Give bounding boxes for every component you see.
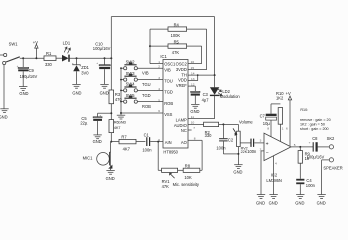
- connector SK2: [323, 136, 342, 170]
- svg-text:GND: GND: [0, 115, 8, 120]
- svg-text:10: 10: [191, 121, 195, 125]
- svg-text:+V: +V: [33, 40, 38, 45]
- wire C8 to SK2: [317, 146, 329, 148]
- resistor R3: [109, 90, 122, 104]
- ground (MIC1): [106, 170, 115, 180]
- resistor R5: [150, 39, 202, 55]
- wire R5 to OSC2: [188, 46, 202, 64]
- svg-text:4µ7: 4µ7: [202, 97, 210, 102]
- wire LAMP: [188, 118, 215, 120]
- pushbutton SW5: [120, 93, 137, 103]
- label R10 gain note: [300, 108, 331, 131]
- wire VSS to bus: [120, 112, 163, 114]
- svg-text:4: 4: [158, 87, 160, 91]
- wire -in to ground: [261, 151, 264, 195]
- node junction RV1 tap: [157, 141, 159, 143]
- svg-text:VREF: VREF: [176, 83, 187, 88]
- node junction C9: [22, 57, 24, 59]
- wire +V top run: [111, 16, 214, 18]
- wire SW3 to TGU, node TGU: [137, 80, 163, 87]
- label mic sensitivity: [173, 182, 200, 187]
- svg-text:IC1: IC1: [160, 54, 167, 59]
- svg-text:TGD: TGD: [142, 93, 151, 98]
- ground (switch bus / VSS): [117, 115, 127, 124]
- svg-text:GND: GND: [118, 121, 127, 125]
- svg-text:TGU: TGU: [142, 82, 151, 87]
- svg-text:3: 3: [158, 76, 160, 80]
- svg-text:C8: C8: [312, 136, 318, 141]
- svg-text:5: 5: [158, 99, 160, 103]
- wire SW2 to VIB, node VIB: [137, 68, 163, 75]
- capacitor C8: [307, 136, 325, 159]
- svg-text:1: 1: [158, 60, 160, 64]
- svg-text:R5: R5: [174, 39, 180, 44]
- resistor R4: [150, 22, 207, 38]
- svg-text:−: −: [266, 150, 269, 156]
- wire +V rail: [20, 57, 44, 59]
- svg-text:TGD: TGD: [164, 90, 173, 95]
- svg-text:GND: GND: [256, 200, 265, 205]
- resistor R8: [183, 163, 200, 179]
- svg-text:remove : gain = 20: remove : gain = 20: [300, 118, 331, 122]
- power +V symbol (amp): [286, 91, 292, 146]
- LED LD2 modulation: [210, 75, 240, 119]
- svg-text:100n: 100n: [142, 148, 152, 153]
- svg-text:ROB: ROB: [142, 104, 151, 109]
- node junction ZD1: [76, 57, 78, 59]
- svg-text:10K: 10K: [184, 175, 192, 180]
- ground (battery): [0, 109, 9, 120]
- wire C5 branch: [98, 113, 112, 117]
- svg-text:GND: GND: [72, 90, 81, 95]
- svg-text:LD1: LD1: [63, 41, 71, 46]
- ground (RV2): [233, 165, 242, 175]
- svg-text:100n: 100n: [306, 183, 316, 188]
- resistor R9: [298, 147, 310, 179]
- svg-text:16: 16: [191, 60, 195, 64]
- capacitor C10: [93, 41, 111, 84]
- svg-text:HT8950: HT8950: [163, 150, 178, 155]
- svg-text:47K: 47K: [162, 184, 170, 189]
- svg-text:14: 14: [191, 71, 195, 75]
- svg-text:+: +: [96, 61, 98, 65]
- capacitor C4: [296, 178, 315, 195]
- svg-text:LAMP: LAMP: [176, 118, 187, 123]
- svg-text:1K2: 1K2: [276, 96, 284, 101]
- resistor R10 gain: [276, 91, 284, 141]
- svg-text:OSC2: OSC2: [176, 62, 188, 67]
- ground (speaker): [317, 195, 326, 206]
- svg-text:330: 330: [45, 62, 53, 67]
- svg-text:1K2 : gain = 50: 1K2 : gain = 50: [300, 123, 325, 127]
- svg-text:C9: C9: [29, 68, 35, 73]
- wire LD1 to riser: [70, 57, 112, 59]
- svg-text:1: 1: [282, 126, 284, 130]
- svg-text:4K7: 4K7: [123, 147, 131, 152]
- wire AUDIO to R2: [188, 123, 204, 125]
- ground (ZD1): [72, 84, 81, 95]
- wire AO down to R8: [188, 140, 202, 170]
- node junction R5 tap: [149, 45, 151, 47]
- svg-text:SK2: SK2: [327, 136, 335, 141]
- node junction TH/+V: [214, 74, 216, 76]
- ground (pin 4): [269, 195, 278, 206]
- wire output: [291, 143, 313, 147]
- svg-text:VSS: VSS: [164, 112, 172, 117]
- svg-text:GND: GND: [269, 200, 278, 205]
- wire pin 4 to ground: [274, 156, 277, 195]
- resistor R7: [111, 135, 136, 152]
- svg-text:R7: R7: [121, 135, 127, 140]
- svg-text:C2: C2: [228, 138, 234, 143]
- svg-text:Volume: Volume: [239, 120, 253, 125]
- wire R8 to AO: [200, 169, 202, 171]
- svg-text:GND: GND: [190, 109, 199, 114]
- svg-text:TH: TH: [181, 72, 187, 77]
- capacitor C3: [191, 91, 210, 104]
- op-amp IC2 LM386N: [260, 133, 291, 183]
- wire speaker return: [322, 160, 330, 195]
- ground (C10): [100, 84, 109, 95]
- pushbutton SW2: [120, 59, 137, 69]
- svg-text:VIB: VIB: [142, 71, 149, 76]
- svg-text:100µ/16V: 100µ/16V: [93, 46, 111, 51]
- capacitor C6: [247, 139, 257, 155]
- wire R4 to 3VDD: [188, 29, 207, 70]
- svg-text:13: 13: [191, 77, 195, 81]
- wire C6 to +in: [254, 142, 264, 144]
- svg-text:100n: 100n: [216, 145, 226, 150]
- svg-text:GND: GND: [233, 170, 242, 175]
- wire battery negative: [3, 65, 5, 109]
- wire R3 to R6: [110, 104, 112, 120]
- svg-text:Mic. sensitivity: Mic. sensitivity: [173, 182, 200, 187]
- svg-text:+: +: [309, 140, 311, 144]
- ground (C5): [93, 135, 102, 144]
- wire VDD jog to TH: [188, 74, 199, 80]
- wire R6 to mic: [110, 133, 112, 142]
- svg-text:6: 6: [286, 126, 288, 130]
- node junction mic/AIN: [110, 141, 112, 143]
- svg-text:LM386N: LM386N: [266, 178, 282, 183]
- svg-text:+: +: [17, 64, 19, 68]
- microphone MIC1: [83, 142, 113, 171]
- svg-text:GND: GND: [100, 90, 109, 95]
- wire +V riser up: [110, 17, 112, 59]
- zener diode ZD1 3V0: [73, 58, 90, 84]
- wire switch common bus: [120, 68, 122, 115]
- node junction C2 tap: [222, 123, 224, 125]
- svg-text:C7: C7: [260, 114, 266, 119]
- svg-text:OSC1: OSC1: [164, 62, 176, 67]
- node junction R9 tap: [299, 146, 301, 148]
- ground (C9): [19, 87, 29, 97]
- svg-text:GND: GND: [317, 200, 326, 205]
- svg-text:C1: C1: [144, 133, 150, 138]
- wire SW4 to TGD, node TGD: [137, 90, 163, 97]
- svg-text:R8: R8: [185, 163, 191, 168]
- svg-text:GND: GND: [106, 176, 115, 181]
- svg-text:AO: AO: [181, 140, 187, 145]
- svg-text:AIN: AIN: [165, 140, 172, 145]
- svg-text:GND: GND: [19, 91, 28, 96]
- svg-text:+V: +V: [286, 91, 291, 96]
- svg-text:12: 12: [191, 82, 195, 86]
- svg-text:SPEAKER: SPEAKER: [323, 166, 342, 171]
- resistor R2: [204, 122, 219, 138]
- svg-text:R1: R1: [46, 51, 52, 56]
- svg-text:10µ: 10µ: [263, 121, 271, 126]
- svg-text:SW1: SW1: [9, 41, 19, 46]
- wire OSC1 riser: [150, 29, 163, 64]
- potentiometer RV1 47K: [162, 168, 178, 189]
- svg-text:3V0: 3V0: [81, 70, 89, 75]
- svg-text:R4: R4: [174, 22, 180, 27]
- svg-text:GND: GND: [93, 139, 102, 144]
- svg-text:8: 8: [267, 126, 269, 130]
- pushbutton SW4: [120, 82, 137, 92]
- svg-text:GND: GND: [295, 200, 304, 205]
- svg-text:7: 7: [193, 126, 195, 130]
- svg-text:5: 5: [294, 143, 296, 147]
- svg-text:10: 10: [305, 156, 310, 161]
- wire NC stub: [188, 129, 192, 131]
- resistor R6: [109, 120, 120, 133]
- capacitor C7 gain: [260, 104, 281, 137]
- node junction +V riser: [110, 57, 112, 59]
- svg-text:15: 15: [191, 66, 195, 70]
- svg-text:short : gain = 200: short : gain = 200: [300, 127, 329, 131]
- svg-text:MIC1: MIC1: [83, 156, 94, 161]
- wire RV1 to R8: [178, 169, 184, 171]
- svg-text:VIB: VIB: [164, 67, 171, 72]
- ground (C4): [295, 195, 304, 206]
- wire VREF down: [188, 86, 195, 91]
- pin numbers IC1 right: [191, 60, 196, 141]
- wire +V down to IC supply: [214, 17, 216, 76]
- wire C1 to AIN: [150, 141, 163, 143]
- svg-text:+: +: [266, 141, 269, 147]
- svg-text:100µ/16V: 100µ/16V: [20, 74, 38, 79]
- svg-text:IC2: IC2: [271, 172, 278, 177]
- svg-text:8: 8: [194, 137, 196, 141]
- node junction C5 tap: [110, 112, 112, 114]
- pushbutton SW3: [120, 71, 137, 81]
- svg-text:NC: NC: [181, 128, 187, 133]
- svg-text:Modulation: Modulation: [220, 94, 241, 99]
- svg-text:TOU: TOU: [164, 79, 173, 84]
- svg-text:22µ: 22µ: [80, 121, 88, 126]
- node junction C10: [104, 57, 106, 59]
- svg-text:4: 4: [275, 161, 277, 165]
- svg-text:4K7: 4K7: [114, 126, 121, 130]
- LED LD1: [62, 41, 71, 62]
- potentiometer RV2 volume: [233, 124, 251, 164]
- wire R2 to volume: [219, 123, 239, 125]
- op-amp U1 IC1 HT8950 body: [160, 54, 188, 154]
- svg-text:ROB: ROB: [164, 101, 173, 106]
- capacitor C9: [17, 58, 38, 86]
- capacitor C5: [80, 114, 102, 135]
- svg-text:6: 6: [158, 109, 160, 113]
- svg-text:3: 3: [260, 139, 262, 143]
- power +V symbol: [33, 40, 38, 59]
- capacitor C1: [136, 133, 152, 153]
- svg-text:47K: 47K: [172, 50, 180, 55]
- capacitor C2: [216, 124, 238, 153]
- wire TH to +V rail: [188, 74, 215, 76]
- ground (C3): [190, 104, 199, 114]
- svg-text:2: 2: [158, 64, 160, 68]
- svg-text:R10:: R10:: [300, 108, 308, 112]
- svg-text:100K: 100K: [171, 33, 181, 38]
- svg-text:11: 11: [191, 115, 194, 119]
- label Volume: [239, 120, 253, 125]
- switch SW1: [3, 41, 20, 64]
- pin numbers IC1 left: [158, 60, 160, 142]
- resistor R1: [44, 51, 56, 67]
- wire SW5 to ROB, node ROB: [137, 102, 163, 109]
- wire riser to R3: [110, 58, 112, 90]
- wire SW1 pole stub: [0, 54, 4, 56]
- ground (pin 2): [256, 195, 265, 206]
- svg-text:100n: 100n: [247, 149, 257, 154]
- svg-text:VDD: VDD: [178, 78, 187, 83]
- svg-text:330: 330: [205, 133, 213, 138]
- wire down to RV1: [158, 142, 161, 171]
- wire R1 to LD1: [56, 57, 62, 59]
